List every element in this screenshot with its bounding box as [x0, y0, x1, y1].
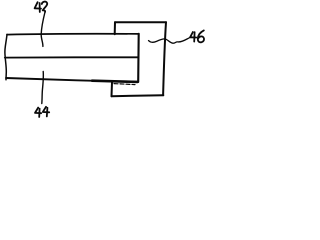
label 44 [35, 107, 49, 117]
leader line for 46 [149, 38, 190, 43]
block 46 bottom edge [112, 95, 164, 96]
label 42 [35, 2, 48, 12]
slot inner wall / panel right end [137, 34, 140, 82]
leader line for 44 [42, 72, 44, 104]
block 46 left edge above slot [114, 22, 116, 34]
panel left edge (wavy hand-drawn) [5, 34, 7, 79]
block 46 right edge [163, 22, 166, 95]
panel bottom edge heavier right portion [92, 81, 138, 82]
panel bottom edge [6, 78, 138, 82]
panel middle line (boundary between layer 42 and layer 44) [5, 56, 138, 58]
panel top edge [7, 33, 139, 36]
label 46 [190, 30, 204, 42]
slot bottom clearance line [114, 84, 135, 85]
block 46 top edge [115, 21, 166, 23]
leader line for 42 [41, 12, 45, 46]
block 46 left edge below slot [111, 82, 114, 96]
